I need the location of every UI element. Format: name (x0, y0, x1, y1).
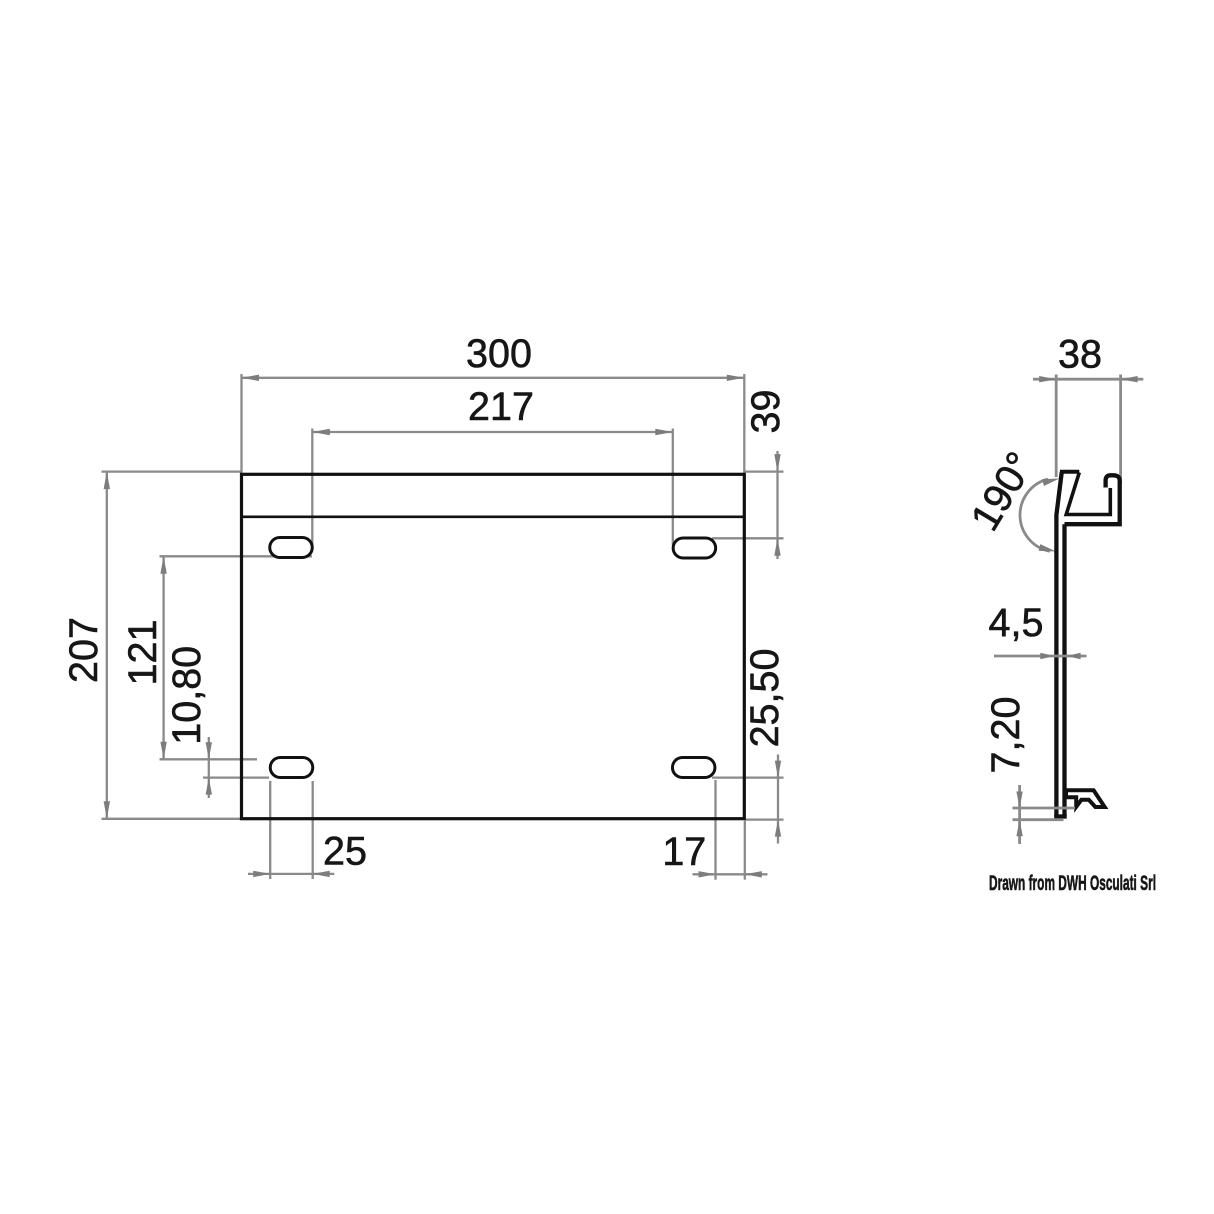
dim 300 line (242, 377, 745, 379)
dim 39 arrow bottom (774, 538, 780, 556)
dim 121 text (121, 620, 165, 686)
dim 25 arrow right (313, 871, 330, 877)
dim 300 arrow left (242, 375, 260, 381)
footer credit text (989, 871, 1156, 895)
dim 207 text (62, 617, 106, 683)
svg-text:25,50: 25,50 (743, 649, 787, 748)
dim 7,20 line (1018, 785, 1021, 844)
dim 17 arrow right (745, 871, 762, 877)
dim 10,80 line (208, 737, 210, 798)
profile stem right wall (1062, 524, 1066, 816)
angle 190 arc arrow top (1042, 479, 1059, 487)
dim 207 arrow top (104, 472, 110, 490)
dim 25,50 text (743, 649, 787, 748)
dim 300 extension line right (743, 374, 745, 474)
dim 38 line (1033, 378, 1143, 381)
dim 207 line (106, 472, 108, 819)
profile left wall top cap (1060, 470, 1079, 474)
dim 121 extension line bottom (from bottom-left slot top) (160, 758, 258, 760)
profile channel floor outer + right wall outer + top hook (1065, 475, 1120, 524)
dim 300 extension line left (240, 374, 242, 474)
dim 207 arrow bottom (104, 801, 110, 819)
dim 17 text (662, 830, 706, 874)
dim 39 line (776, 451, 778, 559)
dim 217 text (468, 385, 534, 429)
dim 217 arrow left (312, 429, 330, 435)
dim 4,5 arrow right (1067, 653, 1081, 659)
svg-text:121: 121 (121, 620, 165, 686)
dim 25,50 arrow top (775, 761, 781, 778)
dim 38 text (1058, 333, 1102, 377)
plate flange inner line (242, 515, 745, 518)
dim 38 arrow left (1039, 376, 1056, 382)
dim 7,20 arrow top (1016, 792, 1022, 809)
dim 7,20 text (984, 697, 1028, 774)
dim 4,5 arrow left (1040, 653, 1054, 659)
dim 121 line (162, 556, 164, 759)
svg-text:4,5: 4,5 (989, 601, 1044, 645)
profile bottom foot (1066, 790, 1105, 807)
svg-text:25: 25 (323, 830, 367, 874)
dim 25 arrow left (253, 871, 270, 877)
dim 17 line (693, 873, 768, 875)
dim 25 text (323, 830, 367, 874)
slot bottom-right (672, 758, 715, 778)
dim 4,5 line (994, 655, 1087, 658)
dim 10,80 arrow top (206, 742, 212, 759)
dim 217 line (312, 431, 673, 433)
dim 217 extension line left (311, 429, 313, 546)
dim 10,80 text (165, 646, 209, 745)
dim 39 extension line bottom (from top-right slot) (712, 537, 784, 539)
dim 25 extension line right (bottom-left slot right edge) (312, 781, 314, 879)
dim 17 arrow left (699, 871, 716, 877)
dim 25,50 arrow bottom (775, 820, 781, 837)
dim 25 line (248, 873, 334, 875)
dim 38 arrow right (1121, 376, 1138, 382)
dim 25,50 extension line top (from bottom-right slot bottom) (712, 776, 784, 778)
dim 17 extension line right (plate right edge extended) (744, 821, 746, 880)
dim 300 text (466, 332, 532, 376)
angle 190 arc (1020, 479, 1050, 551)
profile stem left wall (1056, 472, 1061, 817)
dim 39 arrow top (774, 454, 780, 472)
dim 38 extension line right (1119, 375, 1122, 485)
slot bottom-left (270, 758, 313, 778)
plate outline (242, 474, 745, 818)
svg-text:217: 217 (468, 385, 534, 429)
dim 25,50 line (777, 755, 779, 844)
slot top-right (673, 538, 716, 558)
dim 10,80 arrow bottom (206, 778, 212, 795)
dim 17 extension line left (bottom-right slot right edge) (714, 780, 716, 880)
dim 217 arrow right (655, 429, 673, 435)
svg-text:38: 38 (1058, 333, 1102, 377)
dim 25 extension line left (bottom-left slot left edge) (269, 781, 271, 879)
dim 10,80 extension line bottom (from bottom-left slot bottom) (203, 776, 269, 778)
dim 207 extension line bottom (102, 818, 242, 820)
dim 121 arrow bottom (160, 742, 166, 760)
slot top-left (270, 538, 313, 558)
dim 4,5 text (989, 601, 1044, 645)
dim 39 text (744, 390, 788, 434)
svg-text:190°: 190° (963, 445, 1043, 539)
profile stem bottom cap (1054, 814, 1067, 818)
profile left wall inner + channel floor inner + right wall inner (1066, 473, 1110, 515)
svg-text:7,20: 7,20 (984, 697, 1028, 774)
dim 39 extension line top (from plate top right) (745, 470, 784, 472)
dim 207 extension line top (102, 470, 242, 472)
dim 38 extension line left (1055, 375, 1058, 478)
svg-text:39: 39 (744, 390, 788, 434)
dim 217 extension line right (672, 429, 674, 546)
svg-text:300: 300 (466, 332, 532, 376)
dim 25,50 extension line bottom (from plate bottom right) (744, 818, 783, 820)
dim 121 arrow top (160, 556, 166, 574)
svg-text:17: 17 (662, 830, 706, 874)
dim 300 arrow right (727, 375, 745, 381)
dim 7,20 arrow bottom (1016, 820, 1022, 837)
angle 190 text (963, 445, 1043, 539)
svg-text:10,80: 10,80 (165, 646, 209, 745)
svg-text:207: 207 (62, 617, 106, 683)
svg-text:Drawn from DWH Osculati Srl: Drawn from DWH Osculati Srl (989, 871, 1156, 895)
dim 121 extension line top (from top-left slot bottom) (160, 555, 313, 557)
dim 7,20 extension line top (foot bottom) (1013, 807, 1076, 810)
dim 7,20 extension line bottom (stem bottom) (1013, 818, 1064, 821)
angle 190 arc arrow bottom (1039, 544, 1056, 551)
